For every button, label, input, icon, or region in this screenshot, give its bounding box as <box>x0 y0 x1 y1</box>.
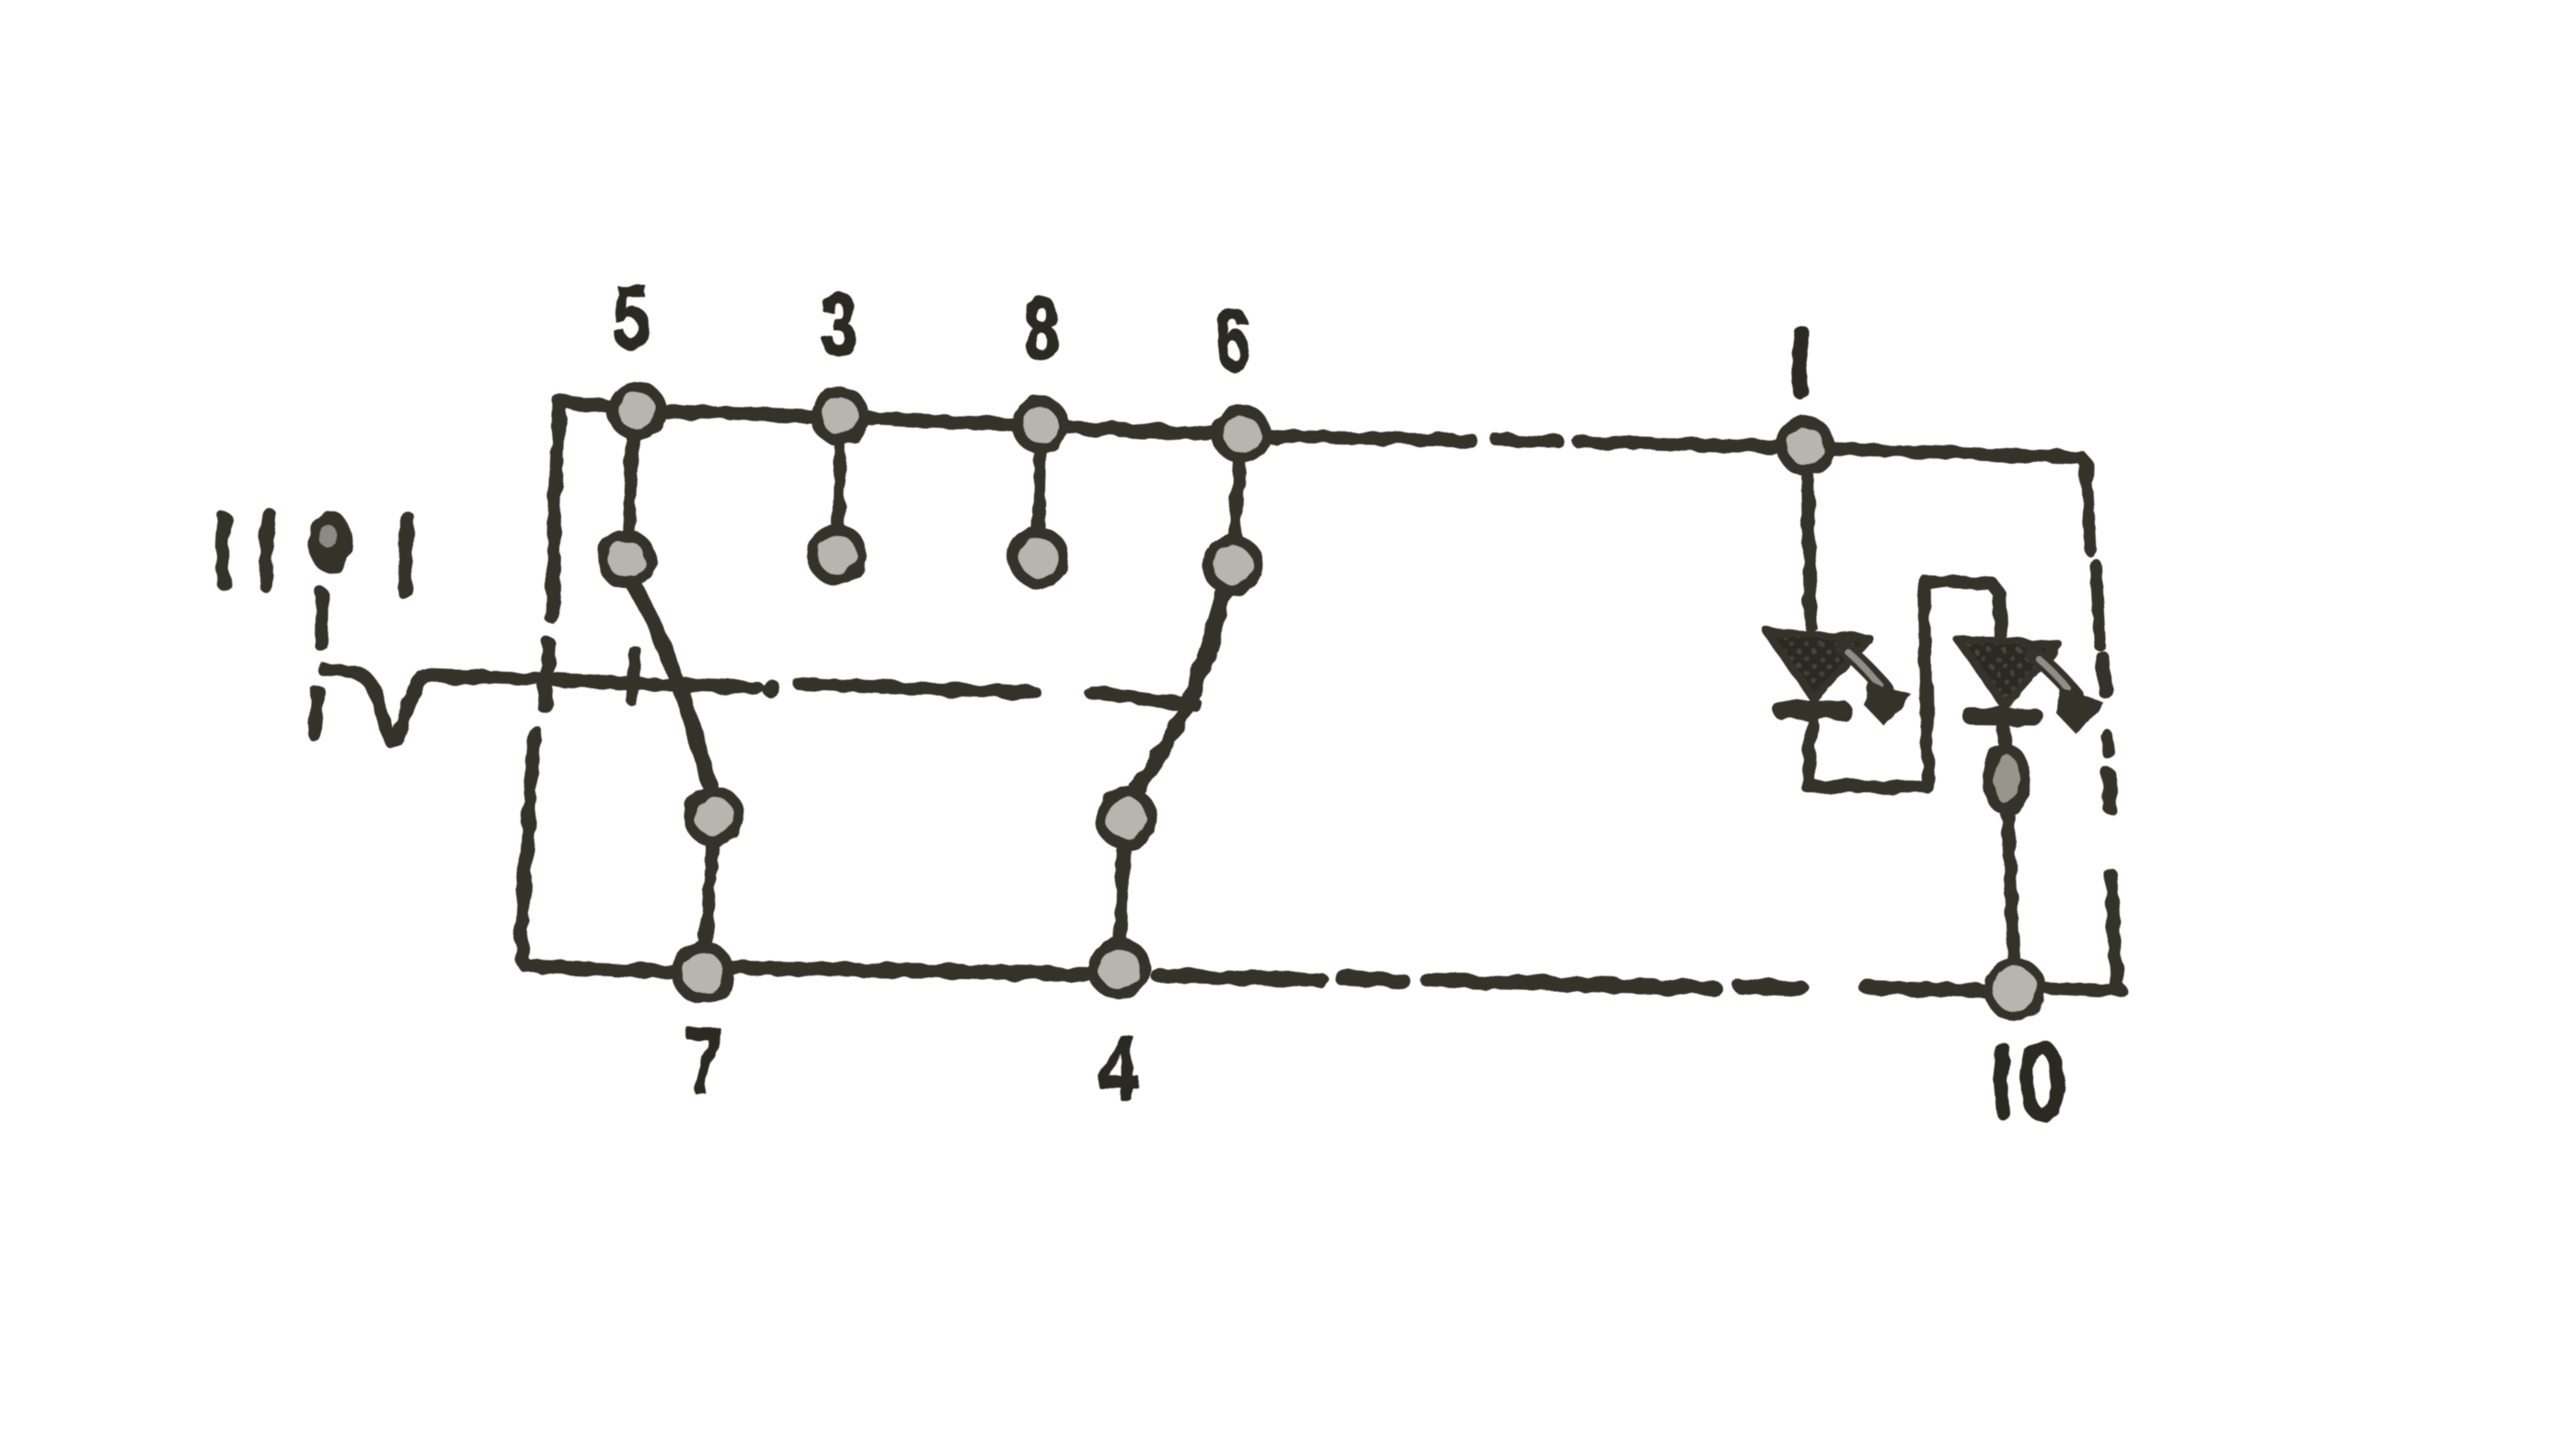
fuse F1 (bead) <box>1988 749 2025 810</box>
wire: stem terminal 3 to contact <box>838 444 840 526</box>
wire: stem terminal 5 to contact <box>628 439 633 535</box>
svg-text:7: 7 <box>686 1011 723 1113</box>
part marking 1101 <box>222 511 408 594</box>
wire: top bus dashed section from terminal 6 to terminal 1 <box>1279 436 1779 447</box>
pin label 1 <box>1799 333 1802 392</box>
switch blade 6-4 <box>1137 594 1225 788</box>
svg-text:4: 4 <box>1099 1018 1139 1119</box>
wire: left bracket vertical with corner to terminal 7 <box>521 403 672 972</box>
wire: fuse F1 to terminal 10 <box>2007 811 2014 958</box>
pole contact above terminal 7 <box>689 791 739 841</box>
coil lead with V kink (squiggle wire) <box>324 669 756 742</box>
wire: stem terminal 8 to contact <box>1039 454 1041 529</box>
wire: stem pole to terminal 7 <box>706 844 712 943</box>
wire: stem terminal 1 to thyristor Q1 anode <box>1808 474 1811 626</box>
contact 5a (circle below terminal 5) <box>603 536 650 583</box>
thyristor Q1 <box>1767 632 1913 728</box>
wire: top bus from terminal 1 to top-right corner <box>1834 449 2087 464</box>
wire: Q2 cathode to fuse F1 <box>2003 726 2006 748</box>
wire: right side vertical (dashed) <box>2087 466 2117 986</box>
terminal 7 <box>677 947 729 998</box>
wire: bottom bus from terminal 7 to terminal 4 <box>735 968 1089 974</box>
wire: top bus through terminals 5,3,8,6 <box>560 401 1274 437</box>
wire: stem pole to terminal 4 <box>1121 846 1123 939</box>
svg-text:5: 5 <box>614 267 650 367</box>
thyristor Q2 <box>1958 640 2103 734</box>
svg-text:6: 6 <box>1215 293 1249 387</box>
terminal 6 <box>1218 410 1266 458</box>
contact 3a (circle below terminal 3) <box>812 530 862 580</box>
svg-text:3: 3 <box>822 274 857 375</box>
terminal 3 <box>816 392 864 440</box>
terminal 4 <box>1094 943 1145 995</box>
terminal 1 <box>1782 422 1830 470</box>
wire: coil lead end ticks <box>315 594 322 734</box>
contact 6a (circle below terminal 6) <box>1208 540 1258 590</box>
tick mark crossing coil lead <box>632 652 635 699</box>
switch blade 5-7 <box>633 583 709 784</box>
terminal 8 <box>1018 402 1064 448</box>
wire: bottom-right corner and stub to terminal 10 <box>2046 986 2122 992</box>
wire: bottom bus dashed from terminal 4 to terminal 10 <box>1158 975 1987 991</box>
wire: Q1 cathode loop to Q2 anode <box>1807 582 2001 788</box>
terminal 10 <box>1988 963 2041 1016</box>
wire: stem terminal 6 to contact <box>1236 463 1240 536</box>
pin label 10 <box>2000 1047 2058 1115</box>
svg-text:8: 8 <box>1024 280 1059 378</box>
terminal 5 <box>613 386 661 434</box>
contact 8a (circle below terminal 8) <box>1014 533 1064 582</box>
linkage dashed line between switch poles <box>799 684 1196 705</box>
pole contact above terminal 4 <box>1100 792 1152 844</box>
